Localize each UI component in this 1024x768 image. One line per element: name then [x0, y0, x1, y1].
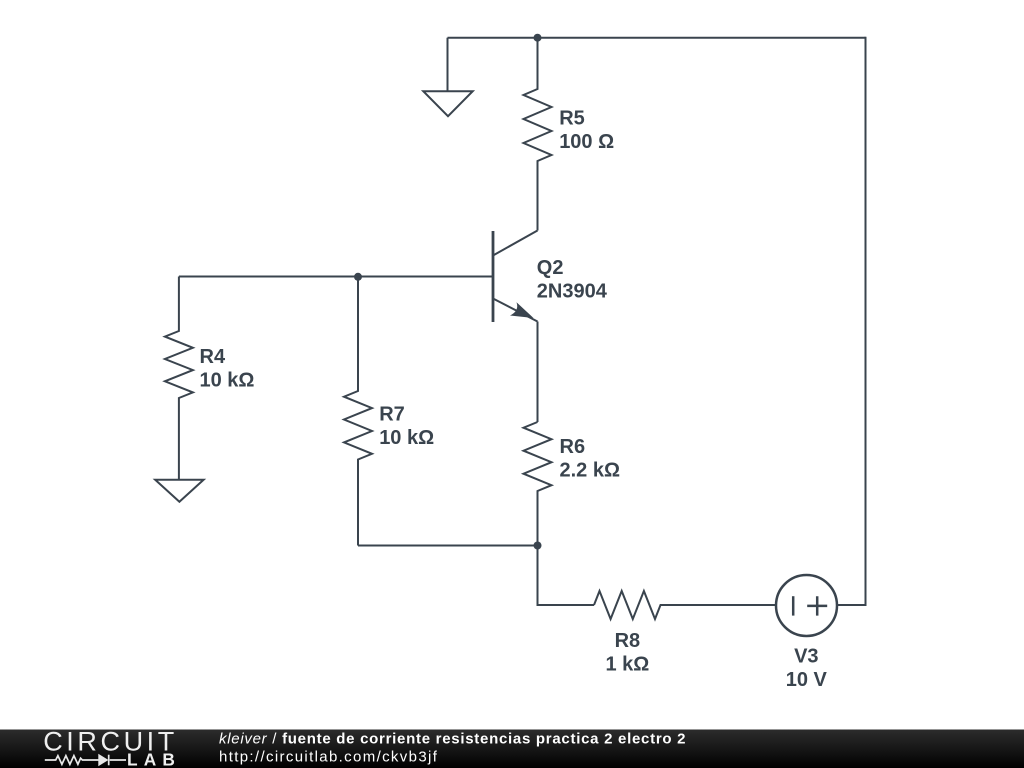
svg-text:R6: R6: [560, 436, 586, 458]
node N3 emitter-bottom: [534, 542, 542, 550]
wire V3 right lead: [837, 604, 867, 606]
svg-text:kleiver / fuente de corriente: kleiver / fuente de corriente resistenci…: [219, 730, 686, 747]
node N1 top: [534, 34, 542, 42]
resistor R5: [524, 38, 552, 231]
svg-text:10 kΩ: 10 kΩ: [379, 427, 434, 449]
ground GND1 top: [423, 38, 472, 117]
svg-text:100 Ω: 100 Ω: [559, 131, 614, 153]
transistor Q2: [493, 231, 538, 423]
logo CircuitLab wordmark: [43, 726, 181, 768]
resistor R7: [344, 277, 372, 546]
svg-text:Q2: Q2: [537, 257, 564, 279]
resistor R6: [524, 422, 552, 546]
wire base: [179, 276, 493, 278]
svg-text:http://circuitlab.com/ckvb3jf: http://circuitlab.com/ckvb3jf: [219, 749, 438, 766]
svg-text:R4: R4: [200, 346, 226, 368]
svg-text:LAB: LAB: [127, 750, 181, 768]
svg-text:R8: R8: [615, 630, 641, 652]
wire top horizontal: [448, 37, 866, 39]
svg-text:1 kΩ: 1 kΩ: [605, 653, 649, 675]
svg-text:V3: V3: [794, 645, 818, 667]
svg-text:2N3904: 2N3904: [537, 281, 608, 303]
svg-text:10 kΩ: 10 kΩ: [200, 369, 255, 391]
svg-text:2.2 kΩ: 2.2 kΩ: [560, 460, 621, 482]
resistor R4: [165, 277, 193, 480]
wire right vertical: [865, 37, 867, 605]
Q2 emitter arrow: [510, 302, 534, 318]
svg-text:R5: R5: [559, 107, 585, 129]
footer attribution text: [219, 730, 686, 765]
wire emitter node down: [538, 546, 595, 606]
wire R7 bottom: [358, 545, 538, 547]
node N2 base: [354, 273, 362, 281]
logo resistor-diode glyph: [45, 755, 126, 766]
resistor R8: [594, 591, 776, 619]
svg-text:10 V: 10 V: [786, 669, 828, 691]
ground GND2: [155, 480, 203, 502]
voltage source V3: [776, 575, 837, 636]
svg-text:R7: R7: [379, 404, 405, 426]
